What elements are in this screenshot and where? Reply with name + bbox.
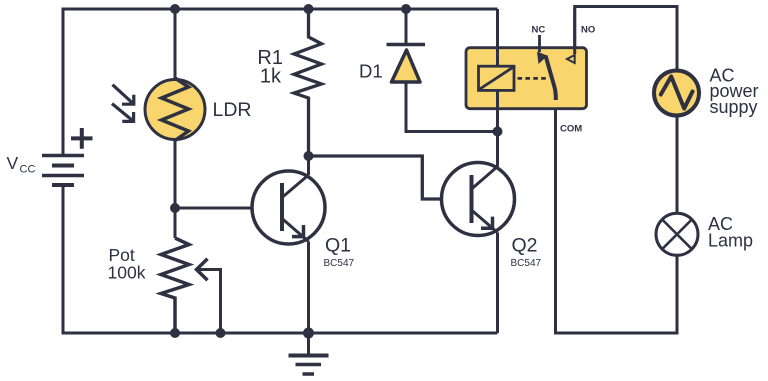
svg-text:CC: CC: [20, 164, 36, 176]
svg-text:BC547: BC547: [324, 258, 355, 269]
svg-text:Lamp: Lamp: [708, 231, 753, 251]
svg-text:LDR: LDR: [213, 99, 252, 121]
svg-text:NO: NO: [581, 25, 595, 36]
svg-text:COM: COM: [560, 124, 582, 135]
svg-text:V: V: [7, 153, 19, 173]
svg-text:100k: 100k: [108, 263, 146, 283]
svg-text:Q1: Q1: [325, 235, 351, 257]
svg-text:suppy: suppy: [710, 97, 758, 117]
svg-text:1k: 1k: [260, 66, 282, 88]
svg-text:NC: NC: [532, 25, 546, 36]
svg-text:Q2: Q2: [512, 235, 538, 257]
svg-text:BC547: BC547: [511, 258, 542, 269]
svg-text:D1: D1: [359, 61, 383, 82]
